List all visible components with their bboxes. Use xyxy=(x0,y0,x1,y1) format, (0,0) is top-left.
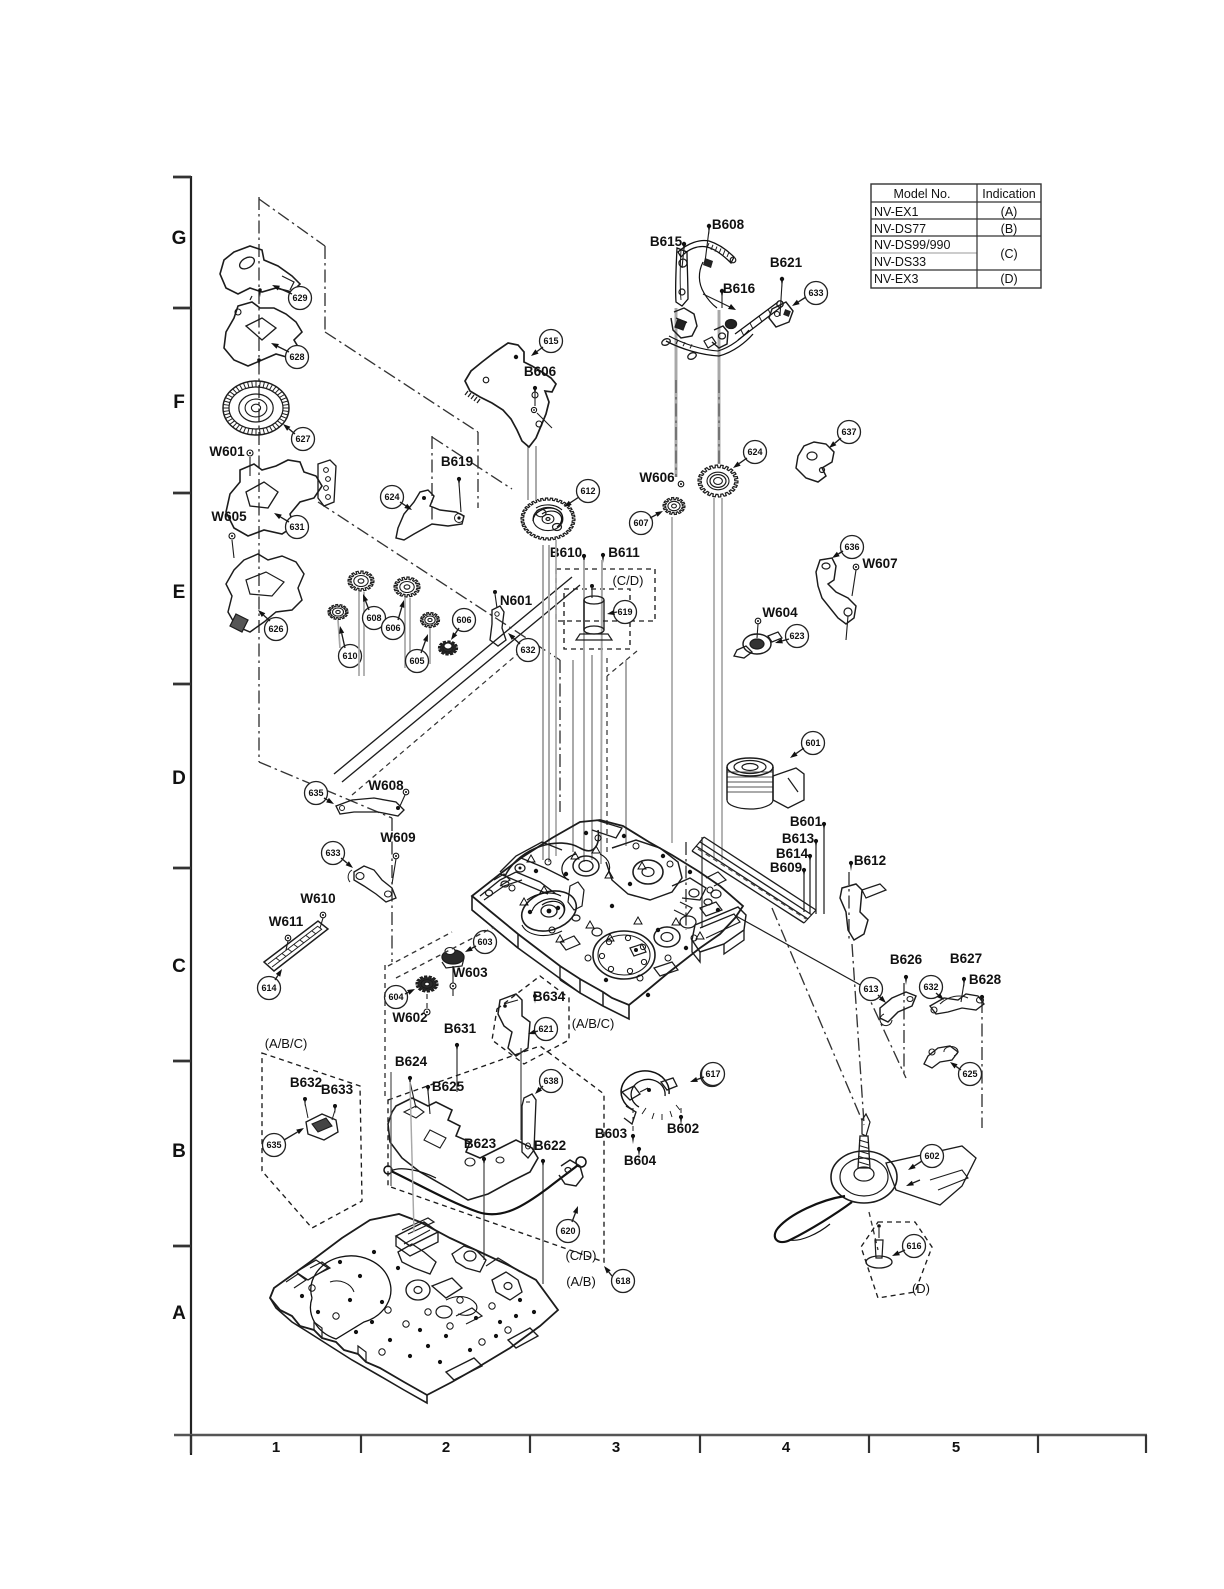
item label 617b xyxy=(701,1064,724,1087)
right dashed diag xyxy=(607,651,637,676)
left ruler tick 5 xyxy=(173,867,191,870)
svg-text:617: 617 xyxy=(705,1069,720,1079)
item label 606b xyxy=(453,609,476,632)
item label 621 xyxy=(535,1018,558,1041)
bottom ruler tick 7 xyxy=(1145,1435,1147,1453)
rail bundle line 4 xyxy=(692,851,804,923)
gear 627 xyxy=(223,381,289,435)
svg-text:638: 638 xyxy=(543,1076,558,1086)
svg-text:604: 604 xyxy=(388,992,403,1002)
switch 635b xyxy=(306,1114,338,1140)
bottom ruler tick 4 xyxy=(699,1435,701,1453)
leader gear612-612b xyxy=(555,540,557,856)
lever 625 xyxy=(924,1046,958,1068)
left ruler tick 7 xyxy=(173,1245,191,1248)
svg-text:629: 629 xyxy=(292,293,307,303)
item label 620 xyxy=(557,1220,580,1243)
leader gear624-down b xyxy=(721,498,723,860)
leader w603-down xyxy=(452,966,454,996)
item label 627 xyxy=(292,428,315,451)
bottom ruler tick 5 xyxy=(868,1435,870,1453)
svg-text:637: 637 xyxy=(841,427,856,437)
left ruler tick 1 xyxy=(173,176,191,179)
svg-text:NV-EX1: NV-EX1 xyxy=(874,205,919,219)
construction line mid-vert xyxy=(559,660,561,812)
reel assembly 602 xyxy=(831,1151,897,1203)
leader gear612-chassis b xyxy=(548,545,550,862)
item label 617 xyxy=(702,1063,725,1086)
item label 601 xyxy=(802,732,825,755)
bottom ruler tick 2 xyxy=(360,1435,362,1453)
lever 632 xyxy=(930,994,984,1014)
chassis cable xyxy=(505,830,598,876)
svg-text:1: 1 xyxy=(272,1439,280,1456)
item label 633 xyxy=(805,282,828,305)
left ruler tick 3 xyxy=(173,492,191,495)
svg-text:606: 606 xyxy=(385,623,400,633)
construction line reel-616 xyxy=(869,1212,878,1250)
svg-text:NV-DS77: NV-DS77 xyxy=(874,222,926,236)
gear 612 xyxy=(521,498,575,540)
svg-text:W602: W602 xyxy=(392,1010,427,1025)
leader bracket615 a xyxy=(527,446,529,500)
item label 633b xyxy=(322,842,345,865)
bracket B612 part xyxy=(840,884,868,940)
construction line mid-diag xyxy=(318,502,560,660)
construction line b612-reel xyxy=(852,944,864,1124)
dashed region (D) hexagon xyxy=(861,1222,932,1298)
construction line holder-leader1 xyxy=(675,308,678,477)
item label 610 xyxy=(339,645,362,668)
motor 601 xyxy=(727,758,773,776)
dashed region (C/D) inner box xyxy=(564,589,630,649)
plate 626 xyxy=(226,554,304,632)
lever 637 xyxy=(796,442,834,482)
bottom ruler tick 6 xyxy=(1037,1435,1039,1453)
cassette holder assembly 633 xyxy=(676,248,688,306)
item label 637 xyxy=(838,421,861,444)
svg-text:B627: B627 xyxy=(950,951,982,966)
item label 635 xyxy=(305,782,328,805)
dashed boundary left vertical xyxy=(384,965,386,1098)
svg-text:(C/D): (C/D) xyxy=(565,1248,596,1263)
svg-text:606: 606 xyxy=(456,615,471,625)
leader gear607-down xyxy=(671,517,673,843)
leader B611 xyxy=(601,560,602,864)
construction line chassis-upleft xyxy=(477,432,479,508)
svg-text:B633: B633 xyxy=(321,1082,354,1097)
svg-text:B616: B616 xyxy=(723,281,756,296)
bottom base plate xyxy=(270,1214,558,1395)
item label 608 xyxy=(363,607,386,630)
svg-text:B601: B601 xyxy=(790,814,823,829)
bracket 621 xyxy=(498,994,530,1056)
rail bundle line 2 xyxy=(700,842,812,915)
svg-text:B624: B624 xyxy=(395,1054,428,1069)
item label 632 xyxy=(920,976,943,999)
gear 606b xyxy=(439,641,458,655)
plate 629 xyxy=(220,246,300,294)
dashed region (C/D) outer box xyxy=(556,569,655,621)
svg-text:B604: B604 xyxy=(624,1153,657,1168)
svg-text:B621: B621 xyxy=(770,255,803,270)
svg-text:(B): (B) xyxy=(1001,222,1018,236)
svg-text:B632: B632 xyxy=(290,1075,322,1090)
svg-text:628: 628 xyxy=(289,352,304,362)
item label 616 xyxy=(903,1235,926,1258)
item label 603 xyxy=(474,931,497,954)
svg-text:B634: B634 xyxy=(533,989,566,1004)
svg-text:D: D xyxy=(172,768,186,789)
svg-text:B623: B623 xyxy=(464,1136,497,1151)
lever 624 xyxy=(396,490,464,540)
svg-text:Model No.: Model No. xyxy=(894,187,951,201)
svg-text:2: 2 xyxy=(442,1439,450,1456)
svg-text:W606: W606 xyxy=(639,470,675,485)
svg-text:607: 607 xyxy=(633,518,648,528)
main chassis assembly xyxy=(472,820,743,1005)
small lever near C/D box xyxy=(559,1160,583,1186)
construction axis top-left column xyxy=(258,197,260,762)
svg-text:B622: B622 xyxy=(534,1138,566,1153)
svg-text:W611: W611 xyxy=(269,914,304,929)
item label 613 xyxy=(860,978,883,1001)
rail bundle dash center xyxy=(698,849,806,919)
svg-text:612: 612 xyxy=(580,486,595,496)
construction line tl-diag2 xyxy=(325,332,478,432)
arm 635 xyxy=(336,798,404,816)
bracket 615 xyxy=(465,343,556,447)
svg-text:B: B xyxy=(172,1141,186,1162)
svg-text:5: 5 xyxy=(952,1439,960,1456)
gear 605 xyxy=(421,613,440,628)
cylinder 619 xyxy=(584,596,604,604)
construction line tl-vert2 xyxy=(324,246,326,332)
construction line b626-lead xyxy=(903,983,905,1074)
svg-text:B619: B619 xyxy=(441,454,473,469)
svg-text:625: 625 xyxy=(962,1069,977,1079)
leader B623 xyxy=(483,1163,485,1260)
item label 607 xyxy=(630,512,653,535)
svg-text:632: 632 xyxy=(923,982,938,992)
item label 626 xyxy=(265,618,288,641)
leader w602-down xyxy=(426,994,428,1014)
svg-text:633: 633 xyxy=(808,288,823,298)
svg-text:B628: B628 xyxy=(969,972,1002,987)
leader bracket615 b xyxy=(535,446,537,500)
svg-text:603: 603 xyxy=(477,937,492,947)
item label 615 xyxy=(540,330,563,353)
svg-text:610: 610 xyxy=(342,651,357,661)
svg-text:621: 621 xyxy=(538,1024,553,1034)
leader B613 xyxy=(815,845,817,914)
gear 604 xyxy=(416,976,438,992)
strip 638 xyxy=(522,1094,536,1158)
svg-text:E: E xyxy=(173,582,186,603)
long leader diagonal 2 xyxy=(342,585,580,782)
svg-text:635: 635 xyxy=(308,788,323,798)
svg-text:B609: B609 xyxy=(770,860,802,875)
dashed region B634 box xyxy=(492,976,569,1064)
svg-text:B626: B626 xyxy=(890,952,923,967)
leader base-1 xyxy=(390,1072,392,1186)
leader B622 xyxy=(542,1165,544,1284)
construction line right-vert-702 xyxy=(701,837,703,928)
leader chassis-top-3 xyxy=(625,660,627,846)
construction line tl-diag xyxy=(259,199,325,246)
cover plate assembly xyxy=(388,1098,538,1200)
construction line right-vert-686 xyxy=(685,842,687,930)
item label 638 xyxy=(540,1070,563,1093)
svg-text:W603: W603 xyxy=(452,965,488,980)
item label 624a xyxy=(381,486,404,509)
item label 636 xyxy=(841,536,864,559)
dashed boundary near chassis left xyxy=(396,927,494,978)
svg-text:B612: B612 xyxy=(854,853,886,868)
svg-text:(A/B/C): (A/B/C) xyxy=(572,1016,615,1031)
svg-text:Indication: Indication xyxy=(982,187,1036,201)
svg-text:B606: B606 xyxy=(524,364,557,379)
svg-text:608: 608 xyxy=(366,613,381,623)
construction line left-vert4 xyxy=(391,818,393,962)
lever 633b xyxy=(354,866,396,902)
bottom ruler tick 1 xyxy=(190,1435,192,1453)
svg-text:(C): (C) xyxy=(1000,247,1017,261)
wire 620 xyxy=(391,1165,578,1214)
svg-text:624: 624 xyxy=(747,447,762,457)
svg-text:W609: W609 xyxy=(380,830,415,845)
leader B610 xyxy=(583,560,585,862)
item label 625 xyxy=(959,1063,982,1086)
svg-text:602: 602 xyxy=(924,1151,939,1161)
plate 628 xyxy=(224,302,302,366)
leader B601 xyxy=(823,828,825,914)
svg-text:B602: B602 xyxy=(667,1121,699,1136)
svg-text:W605: W605 xyxy=(211,509,247,524)
svg-text:G: G xyxy=(172,228,187,249)
bottom ruler tick 3 xyxy=(529,1435,531,1453)
svg-text:W608: W608 xyxy=(368,778,404,793)
rail 614 xyxy=(264,921,328,971)
leader chassis-top-2 xyxy=(591,655,593,860)
svg-text:605: 605 xyxy=(409,656,424,666)
leader base-2 xyxy=(520,1048,522,1140)
left ruler tick 2 xyxy=(173,307,191,310)
item label 628 xyxy=(286,346,309,369)
rail bundle line 1 xyxy=(704,837,816,910)
leader gear612-chassis a xyxy=(542,545,544,860)
item label 624 xyxy=(744,441,767,464)
bracket 631 xyxy=(226,460,322,536)
svg-text:C: C xyxy=(172,956,186,977)
item label 631 xyxy=(286,516,309,539)
leader B609 xyxy=(803,874,805,912)
model table xyxy=(871,184,1041,288)
svg-text:N601: N601 xyxy=(500,593,533,608)
svg-text:(D): (D) xyxy=(912,1281,930,1296)
item label 619 xyxy=(614,601,637,624)
item label 635b xyxy=(263,1134,286,1157)
construction line left-diag3 xyxy=(259,762,392,818)
rail end caps xyxy=(804,910,816,923)
svg-text:B631: B631 xyxy=(444,1021,477,1036)
item label 614 xyxy=(258,977,281,1000)
svg-text:(A): (A) xyxy=(1001,205,1018,219)
lever 613 xyxy=(880,992,916,1022)
svg-text:619: 619 xyxy=(617,607,632,617)
leader B624-long xyxy=(410,1082,414,1232)
svg-text:3: 3 xyxy=(612,1439,620,1456)
svg-text:(C/D): (C/D) xyxy=(612,573,643,588)
svg-text:A: A xyxy=(172,1303,186,1324)
gear 610 xyxy=(328,605,348,620)
svg-text:4: 4 xyxy=(782,1439,791,1456)
item label 632a xyxy=(517,639,540,662)
svg-text:NV-DS33: NV-DS33 xyxy=(874,255,926,269)
construction line reel-diag2 xyxy=(736,916,864,987)
long leader diagonal dashed xyxy=(352,652,520,795)
item label 604 xyxy=(385,986,408,1009)
svg-text:(A/B/C): (A/B/C) xyxy=(265,1036,308,1051)
gear 607 xyxy=(663,498,685,515)
svg-text:B611: B611 xyxy=(608,545,640,560)
leader B614 xyxy=(809,860,811,913)
leader gear624-down a xyxy=(713,498,715,858)
rail bundle line 3 xyxy=(696,846,808,919)
clamp 617 xyxy=(621,1071,669,1110)
svg-text:B610: B610 xyxy=(550,545,582,560)
right dashed vertical xyxy=(606,658,608,856)
svg-text:636: 636 xyxy=(844,542,859,552)
bottom zone ruler line xyxy=(174,1434,1147,1436)
left ruler tick 4 xyxy=(173,683,191,686)
construction line b619-box-v xyxy=(431,436,433,520)
item label 629 xyxy=(289,287,312,310)
leader chassis-top-1 xyxy=(572,660,574,852)
item label 623 xyxy=(786,625,809,648)
svg-text:NV-DS99/990: NV-DS99/990 xyxy=(874,238,950,252)
svg-text:601: 601 xyxy=(805,738,820,748)
svg-text:B603: B603 xyxy=(595,1126,628,1141)
construction line b619-box-d xyxy=(432,437,512,489)
svg-text:B613: B613 xyxy=(782,831,815,846)
long leader diagonal 1 xyxy=(334,577,572,774)
svg-text:B608: B608 xyxy=(712,217,745,232)
svg-text:B625: B625 xyxy=(432,1079,465,1094)
svg-text:W601: W601 xyxy=(209,444,245,459)
gear 624 xyxy=(698,465,738,497)
left zone ruler line xyxy=(190,176,192,1455)
item label 612 xyxy=(577,480,600,503)
left ruler tick 6 xyxy=(173,1060,191,1063)
dashed region cover plate xyxy=(388,1046,604,1262)
item label 605 xyxy=(406,650,429,673)
svg-text:613: 613 xyxy=(863,984,878,994)
bracket 636 xyxy=(816,558,856,624)
svg-text:W604: W604 xyxy=(762,605,798,620)
svg-text:F: F xyxy=(173,392,185,413)
svg-text:616: 616 xyxy=(906,1241,921,1251)
svg-text:614: 614 xyxy=(261,983,276,993)
construction line b612-lead xyxy=(848,872,850,940)
item label 618 xyxy=(612,1270,635,1293)
svg-text:615: 615 xyxy=(543,336,558,346)
svg-text:620: 620 xyxy=(560,1226,575,1236)
svg-text:632: 632 xyxy=(520,645,535,655)
svg-text:(A/B): (A/B) xyxy=(566,1274,596,1289)
svg-text:(D): (D) xyxy=(1000,272,1017,286)
gear 608 xyxy=(348,571,374,591)
svg-text:NV-EX3: NV-EX3 xyxy=(874,272,919,286)
gear 606a xyxy=(394,577,420,597)
svg-text:618: 618 xyxy=(615,1276,630,1286)
svg-text:W607: W607 xyxy=(862,556,897,571)
dashed region A/B/C bottom-left xyxy=(262,1053,362,1228)
item label 606a xyxy=(382,617,405,640)
svg-text:633: 633 xyxy=(325,848,340,858)
svg-text:623: 623 xyxy=(789,631,804,641)
construction line holder-leader2 xyxy=(718,310,721,464)
pin 616 xyxy=(866,1256,892,1268)
svg-text:W610: W610 xyxy=(300,891,335,906)
svg-text:635: 635 xyxy=(266,1140,281,1150)
svg-text:631: 631 xyxy=(289,522,304,532)
rotor 623 xyxy=(743,634,771,654)
svg-text:B614: B614 xyxy=(776,846,809,861)
svg-text:627: 627 xyxy=(295,434,310,444)
construction line reel-diag xyxy=(772,908,864,1125)
svg-text:B615: B615 xyxy=(650,234,683,249)
pulley W603 xyxy=(442,950,464,964)
svg-text:624: 624 xyxy=(384,492,399,502)
construction line b628-lead xyxy=(981,1000,983,1128)
svg-text:626: 626 xyxy=(268,624,283,634)
item label 602 xyxy=(921,1145,944,1168)
